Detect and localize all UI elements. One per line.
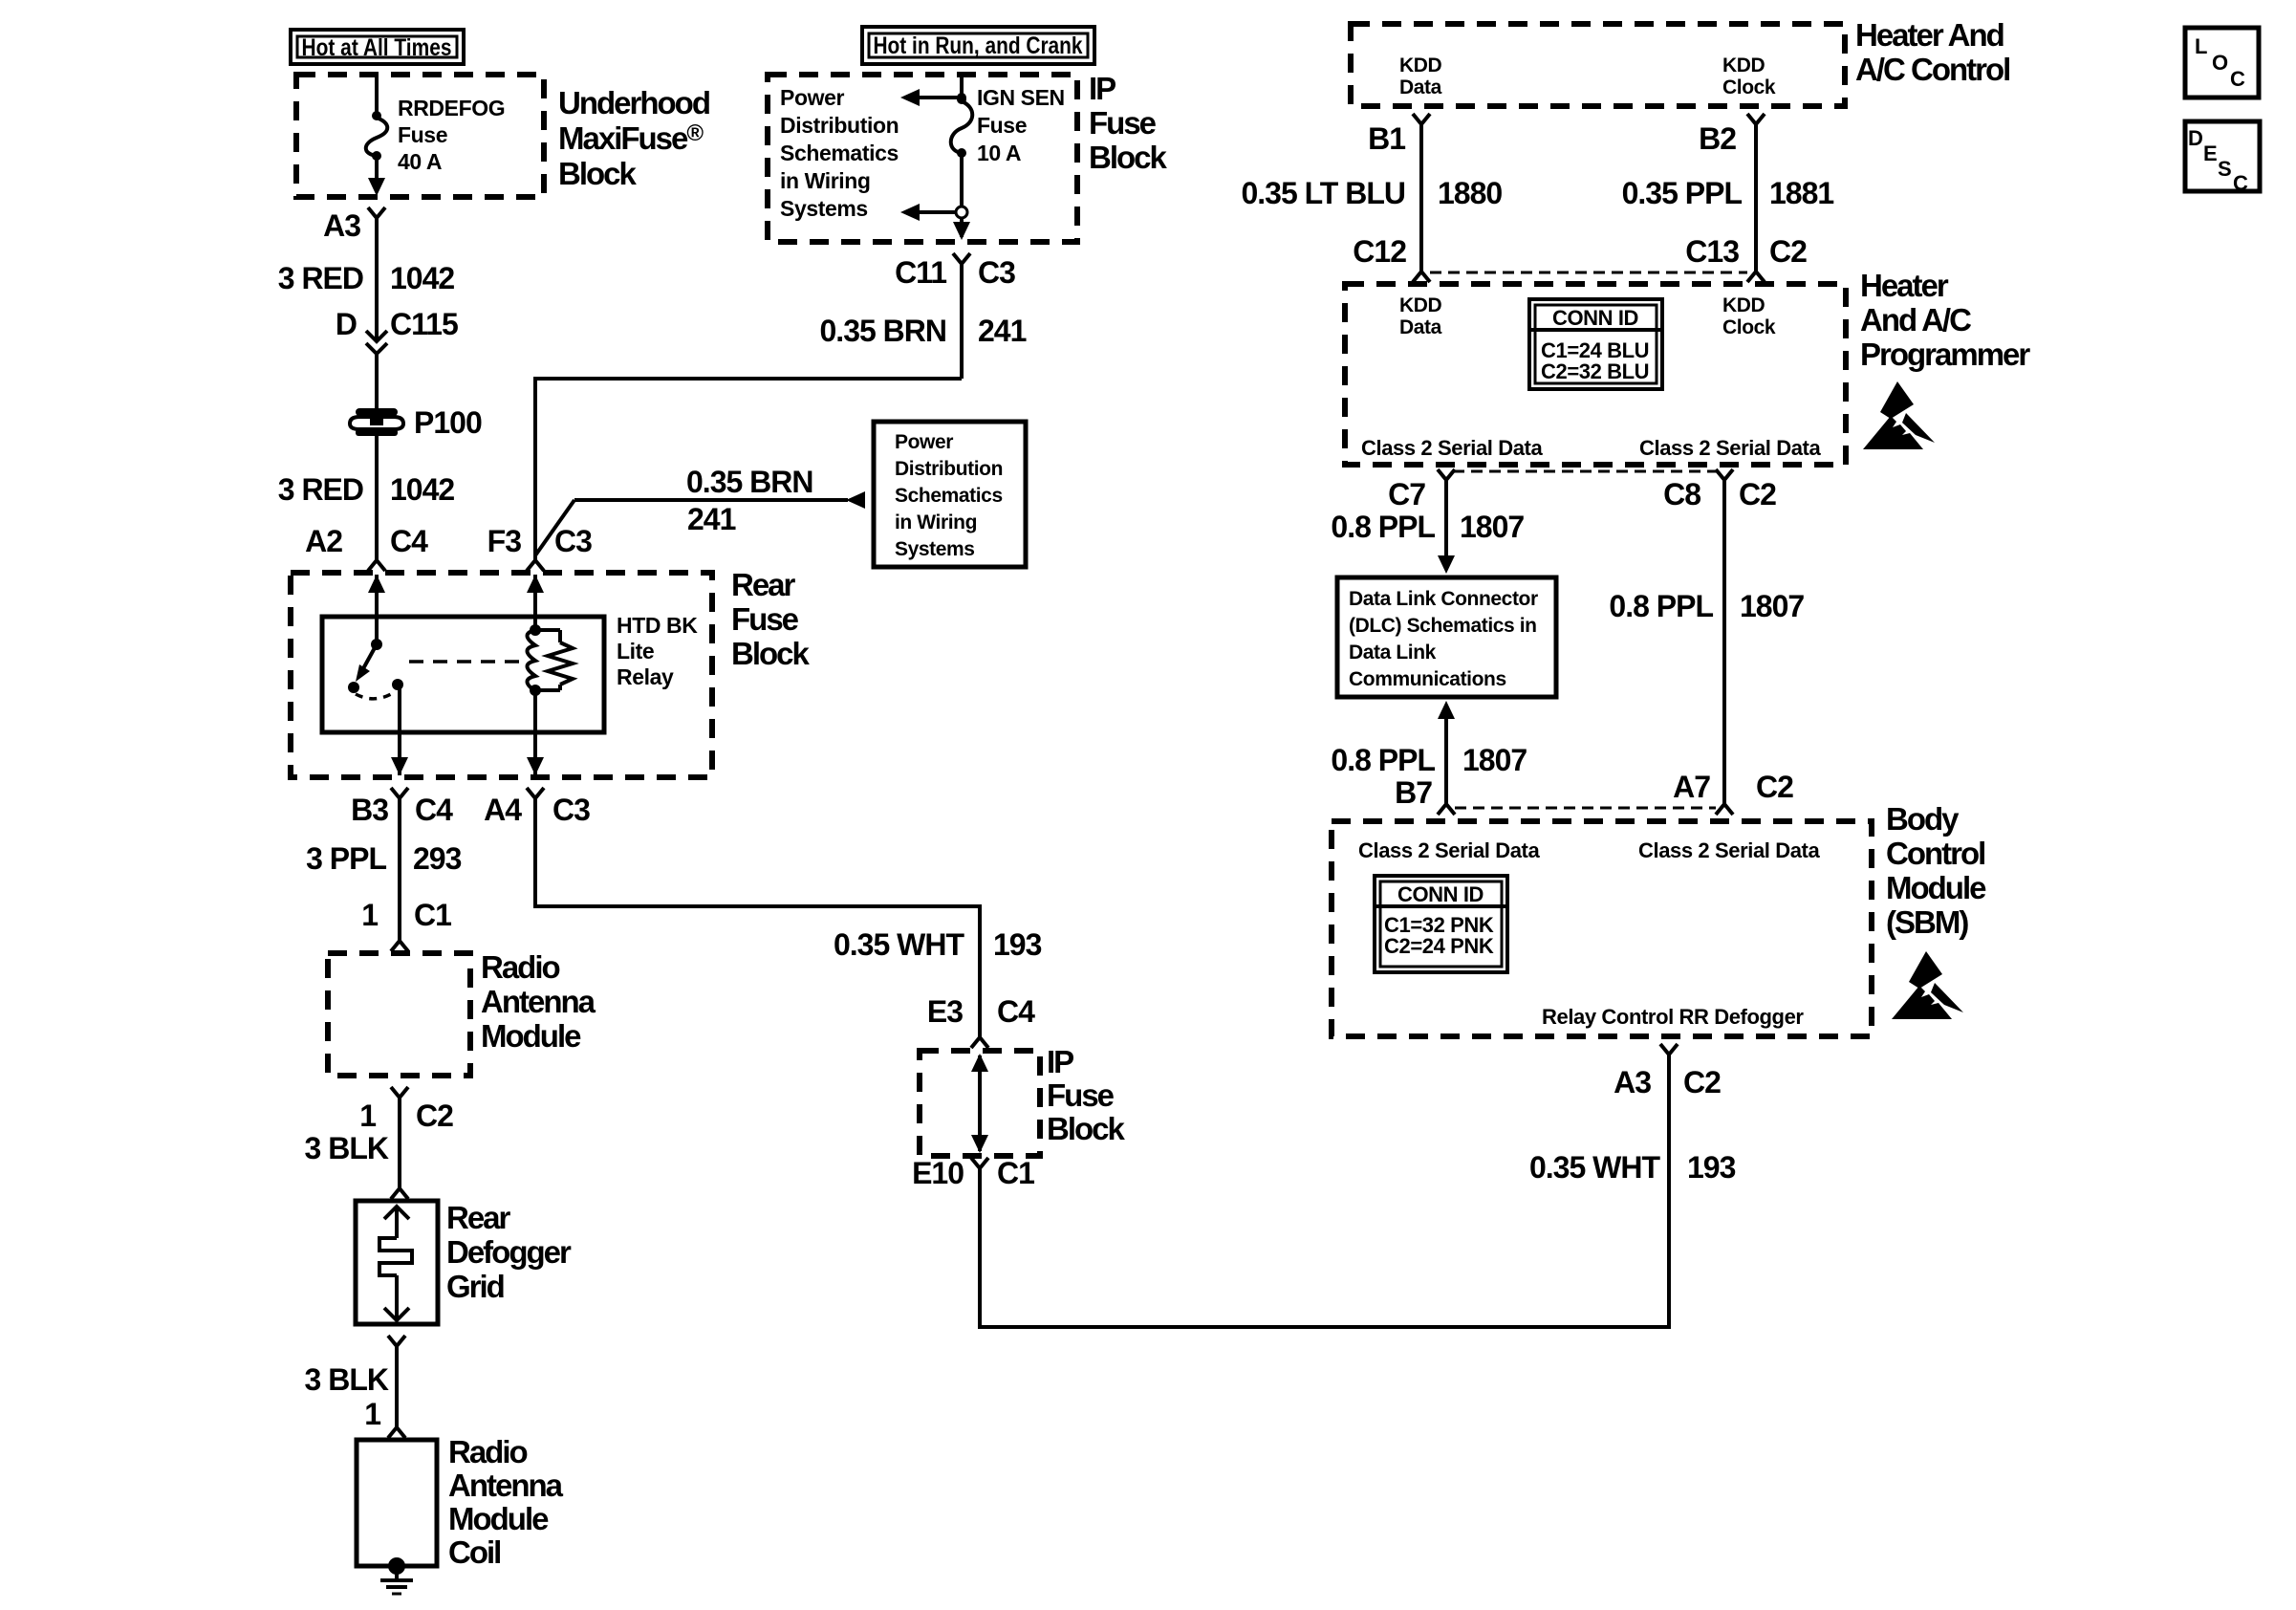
svg-text:C3: C3	[978, 255, 1015, 290]
svg-text:F3: F3	[487, 524, 522, 558]
svg-text:193: 193	[993, 927, 1042, 962]
svg-text:IP: IP	[1089, 71, 1116, 106]
svg-text:Class 2 Serial Data: Class 2 Serial Data	[1358, 838, 1540, 862]
svg-text:Distribution: Distribution	[780, 113, 899, 138]
svg-text:KDD: KDD	[1399, 294, 1442, 316]
svg-text:A3: A3	[323, 208, 360, 243]
svg-text:1: 1	[364, 1397, 380, 1431]
svg-text:C: C	[2230, 67, 2245, 91]
svg-text:0.35 WHT: 0.35 WHT	[1529, 1150, 1660, 1185]
svg-text:1042: 1042	[390, 472, 454, 507]
svg-text:Data Link: Data Link	[1349, 642, 1437, 664]
svg-text:C8: C8	[1663, 477, 1700, 511]
svg-text:KDD: KDD	[1722, 294, 1765, 316]
svg-text:C1: C1	[414, 898, 451, 932]
svg-text:C4: C4	[997, 994, 1035, 1029]
svg-text:0.35 BRN: 0.35 BRN	[820, 314, 947, 348]
svg-text:C1: C1	[997, 1156, 1034, 1190]
svg-text:0.35 PPL: 0.35 PPL	[1622, 176, 1743, 210]
svg-text:A4: A4	[484, 793, 522, 827]
svg-text:Programmer: Programmer	[1860, 337, 2030, 372]
svg-text:C2: C2	[1739, 477, 1776, 511]
svg-text:3 BLK: 3 BLK	[305, 1362, 389, 1397]
svg-text:CONN ID: CONN ID	[1397, 882, 1484, 906]
svg-text:C13: C13	[1685, 234, 1739, 269]
svg-text:C4: C4	[390, 524, 428, 558]
svg-text:A7: A7	[1673, 770, 1710, 804]
svg-text:A3: A3	[1614, 1065, 1651, 1099]
svg-text:193: 193	[1687, 1150, 1736, 1185]
svg-text:C2: C2	[416, 1099, 453, 1133]
svg-text:A2: A2	[305, 524, 342, 558]
svg-text:Communications: Communications	[1349, 668, 1506, 690]
svg-text:in Wiring: in Wiring	[780, 168, 871, 193]
svg-text:C2=32 BLU: C2=32 BLU	[1541, 359, 1649, 383]
svg-text:A/C Control: A/C Control	[1855, 52, 2009, 87]
svg-text:in Wiring: in Wiring	[895, 511, 977, 533]
svg-text:KDD: KDD	[1722, 54, 1765, 76]
svg-text:C7: C7	[1388, 477, 1425, 511]
svg-text:Systems: Systems	[895, 538, 975, 560]
svg-text:Rear: Rear	[731, 567, 796, 602]
svg-text:And A/C: And A/C	[1860, 302, 1971, 337]
svg-text:Heater And: Heater And	[1855, 17, 2004, 53]
svg-text:C2: C2	[1756, 770, 1793, 804]
svg-text:0.35 LT BLU: 0.35 LT BLU	[1241, 176, 1405, 210]
svg-text:3 RED: 3 RED	[278, 472, 363, 507]
svg-text:Systems: Systems	[780, 196, 868, 221]
svg-text:Class 2 Serial Data: Class 2 Serial Data	[1639, 436, 1821, 460]
svg-text:E3: E3	[927, 994, 963, 1029]
svg-text:1807: 1807	[1460, 510, 1524, 544]
svg-text:Data: Data	[1399, 316, 1442, 338]
svg-text:Class 2 Serial Data: Class 2 Serial Data	[1638, 838, 1820, 862]
svg-text:E: E	[2203, 141, 2217, 165]
svg-text:Underhood: Underhood	[558, 85, 709, 120]
svg-text:Radio: Radio	[448, 1434, 528, 1469]
svg-text:C3: C3	[554, 524, 592, 558]
svg-text:Block: Block	[558, 156, 638, 191]
svg-text:Fuse: Fuse	[398, 122, 447, 147]
svg-text:1: 1	[359, 1099, 376, 1133]
svg-text:Antenna: Antenna	[448, 1468, 564, 1503]
svg-text:Block: Block	[1047, 1111, 1126, 1146]
svg-text:Fuse: Fuse	[977, 113, 1027, 138]
svg-text:HTD BK: HTD BK	[617, 613, 698, 638]
svg-text:241: 241	[978, 314, 1027, 348]
svg-text:Data: Data	[1399, 76, 1442, 98]
svg-text:MaxiFuse®: MaxiFuse®	[558, 120, 704, 156]
svg-text:C115: C115	[390, 307, 458, 341]
svg-text:Fuse: Fuse	[1089, 105, 1157, 141]
svg-text:C: C	[2233, 171, 2248, 195]
svg-text:1881: 1881	[1769, 176, 1833, 210]
svg-text:D: D	[2188, 126, 2203, 150]
svg-text:KDD: KDD	[1399, 54, 1442, 76]
svg-text:CONN ID: CONN ID	[1552, 306, 1638, 330]
svg-text:IGN SEN: IGN SEN	[977, 85, 1065, 110]
svg-text:B3: B3	[351, 793, 388, 827]
svg-text:B1: B1	[1368, 121, 1405, 156]
svg-text:Distribution: Distribution	[895, 458, 1003, 480]
svg-text:Module: Module	[481, 1018, 581, 1054]
svg-text:40 A: 40 A	[398, 149, 442, 174]
svg-text:Rear: Rear	[446, 1200, 511, 1235]
svg-text:C2: C2	[1769, 234, 1807, 269]
svg-text:Module: Module	[448, 1501, 549, 1536]
svg-text:Fuse: Fuse	[731, 601, 799, 637]
svg-text:Body: Body	[1886, 801, 1960, 837]
svg-text:D: D	[336, 307, 357, 341]
svg-text:3 BLK: 3 BLK	[305, 1131, 389, 1165]
svg-text:C11: C11	[895, 255, 946, 290]
svg-text:P100: P100	[414, 405, 482, 440]
svg-text:Class 2 Serial Data: Class 2 Serial Data	[1361, 436, 1543, 460]
svg-text:Grid: Grid	[446, 1269, 504, 1304]
svg-text:(SBM): (SBM)	[1886, 904, 1968, 940]
svg-text:C3: C3	[552, 793, 590, 827]
svg-text:10 A: 10 A	[977, 141, 1021, 165]
svg-text:Schematics: Schematics	[780, 141, 899, 165]
svg-text:Fuse: Fuse	[1047, 1077, 1115, 1113]
svg-text:S: S	[2218, 157, 2231, 181]
svg-text:241: 241	[687, 502, 736, 536]
svg-text:RRDEFOG: RRDEFOG	[398, 96, 505, 120]
svg-text:Control: Control	[1886, 836, 1984, 871]
svg-text:IP: IP	[1047, 1044, 1073, 1079]
svg-text:O: O	[2212, 51, 2228, 75]
svg-text:C2: C2	[1683, 1065, 1721, 1099]
svg-text:B7: B7	[1395, 775, 1432, 810]
svg-text:Block: Block	[1089, 140, 1168, 175]
svg-text:293: 293	[413, 841, 462, 876]
svg-text:Radio: Radio	[481, 949, 560, 985]
svg-text:Schematics: Schematics	[895, 485, 1003, 507]
svg-text:C12: C12	[1353, 234, 1406, 269]
svg-text:Hot in Run, and Crank: Hot in Run, and Crank	[874, 33, 1083, 59]
svg-text:Power: Power	[780, 85, 844, 110]
svg-text:1880: 1880	[1438, 176, 1502, 210]
svg-text:0.35 BRN: 0.35 BRN	[686, 465, 813, 499]
svg-text:1: 1	[361, 898, 378, 932]
svg-text:Heater: Heater	[1860, 268, 1949, 303]
svg-text:Clock: Clock	[1722, 76, 1776, 98]
svg-text:Power: Power	[895, 431, 953, 453]
svg-text:Coil: Coil	[448, 1534, 500, 1570]
svg-text:1807: 1807	[1740, 589, 1804, 623]
svg-text:0.8 PPL: 0.8 PPL	[1331, 510, 1435, 544]
svg-text:0.8 PPL: 0.8 PPL	[1331, 743, 1435, 777]
svg-text:0.8 PPL: 0.8 PPL	[1609, 589, 1713, 623]
svg-text:B2: B2	[1699, 121, 1736, 156]
svg-text:Lite: Lite	[617, 639, 654, 664]
svg-text:Relay: Relay	[617, 664, 674, 689]
svg-text:Hot at All Times: Hot at All Times	[302, 34, 452, 61]
svg-text:3 PPL: 3 PPL	[306, 841, 386, 876]
svg-text:Block: Block	[731, 636, 811, 671]
svg-text:Antenna: Antenna	[481, 984, 596, 1019]
svg-text:Relay Control RR Defogger: Relay Control RR Defogger	[1542, 1005, 1804, 1029]
svg-text:3 RED: 3 RED	[278, 261, 363, 295]
svg-text:E10: E10	[912, 1156, 964, 1190]
svg-text:0.35 WHT: 0.35 WHT	[834, 927, 964, 962]
svg-text:C2=24 PNK: C2=24 PNK	[1384, 934, 1494, 958]
svg-text:Defogger: Defogger	[446, 1234, 572, 1270]
svg-text:C4: C4	[415, 793, 453, 827]
svg-text:(DLC) Schematics in: (DLC) Schematics in	[1349, 615, 1537, 637]
svg-text:1807: 1807	[1462, 743, 1527, 777]
svg-text:Data Link Connector: Data Link Connector	[1349, 588, 1538, 610]
svg-text:Clock: Clock	[1722, 316, 1776, 338]
svg-text:L: L	[2195, 34, 2207, 58]
svg-text:Module: Module	[1886, 870, 1986, 905]
svg-text:1042: 1042	[390, 261, 454, 295]
